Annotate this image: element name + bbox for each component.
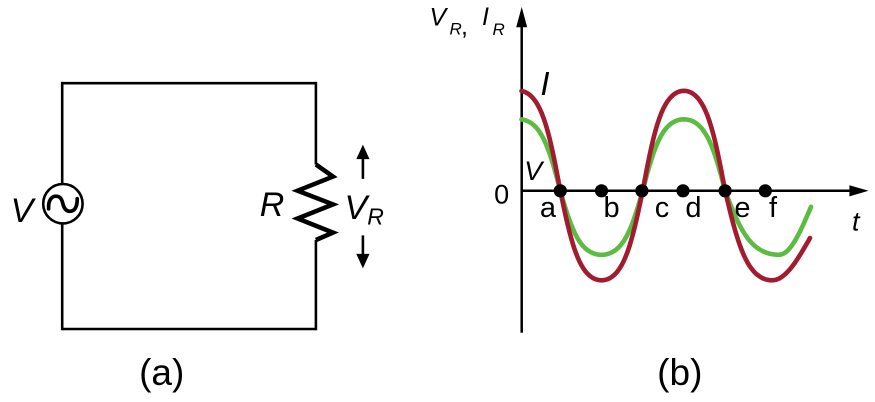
wire left upper	[61, 82, 64, 184]
label VR	[345, 189, 384, 230]
ac source V1	[43, 184, 82, 223]
wire bottom	[62, 328, 316, 331]
svg-text:a: a	[540, 192, 557, 224]
label V (green curve)	[524, 156, 545, 186]
label (a)	[139, 352, 184, 393]
arrow down (VR polarity)	[356, 235, 369, 268]
wire right upper	[315, 82, 318, 165]
svg-text:c: c	[655, 192, 670, 224]
svg-text:R: R	[450, 19, 462, 38]
wire top	[62, 82, 316, 85]
svg-text:e: e	[734, 192, 750, 224]
svg-text:R: R	[493, 20, 505, 39]
label 0	[494, 179, 509, 209]
svg-text:I: I	[482, 3, 489, 31]
label I (red curve)	[540, 65, 549, 102]
svg-text:d: d	[685, 192, 701, 224]
node c	[635, 184, 669, 224]
svg-text:V: V	[430, 4, 449, 32]
x-axis	[522, 185, 869, 196]
resistor R	[298, 165, 333, 241]
svg-text:V: V	[11, 192, 37, 230]
node a	[540, 184, 567, 224]
arrow up (VR polarity)	[356, 145, 369, 179]
label t	[852, 207, 861, 237]
svg-text:VR: VR	[345, 189, 384, 230]
node e	[719, 184, 751, 224]
label V (source)	[11, 192, 37, 230]
axis label VR, IR	[430, 3, 505, 41]
wire left lower	[61, 223, 64, 330]
svg-text:R: R	[260, 186, 285, 224]
svg-text:f: f	[769, 192, 778, 224]
label (b)	[657, 352, 702, 393]
label R	[260, 186, 285, 224]
svg-text:t: t	[852, 207, 861, 237]
wire right lower	[315, 240, 318, 330]
node f	[759, 184, 778, 224]
curve V (green)	[522, 119, 812, 255]
svg-text:0: 0	[494, 179, 509, 209]
svg-text:(b): (b)	[657, 352, 702, 393]
y-axis	[516, 7, 527, 333]
svg-text:V: V	[524, 156, 545, 186]
node d	[676, 184, 701, 224]
curve I (red)	[522, 91, 811, 280]
svg-text:(a): (a)	[139, 352, 184, 393]
svg-text:,: ,	[461, 12, 468, 40]
svg-text:b: b	[604, 192, 620, 224]
svg-text:I: I	[540, 65, 549, 102]
node b	[595, 184, 620, 224]
